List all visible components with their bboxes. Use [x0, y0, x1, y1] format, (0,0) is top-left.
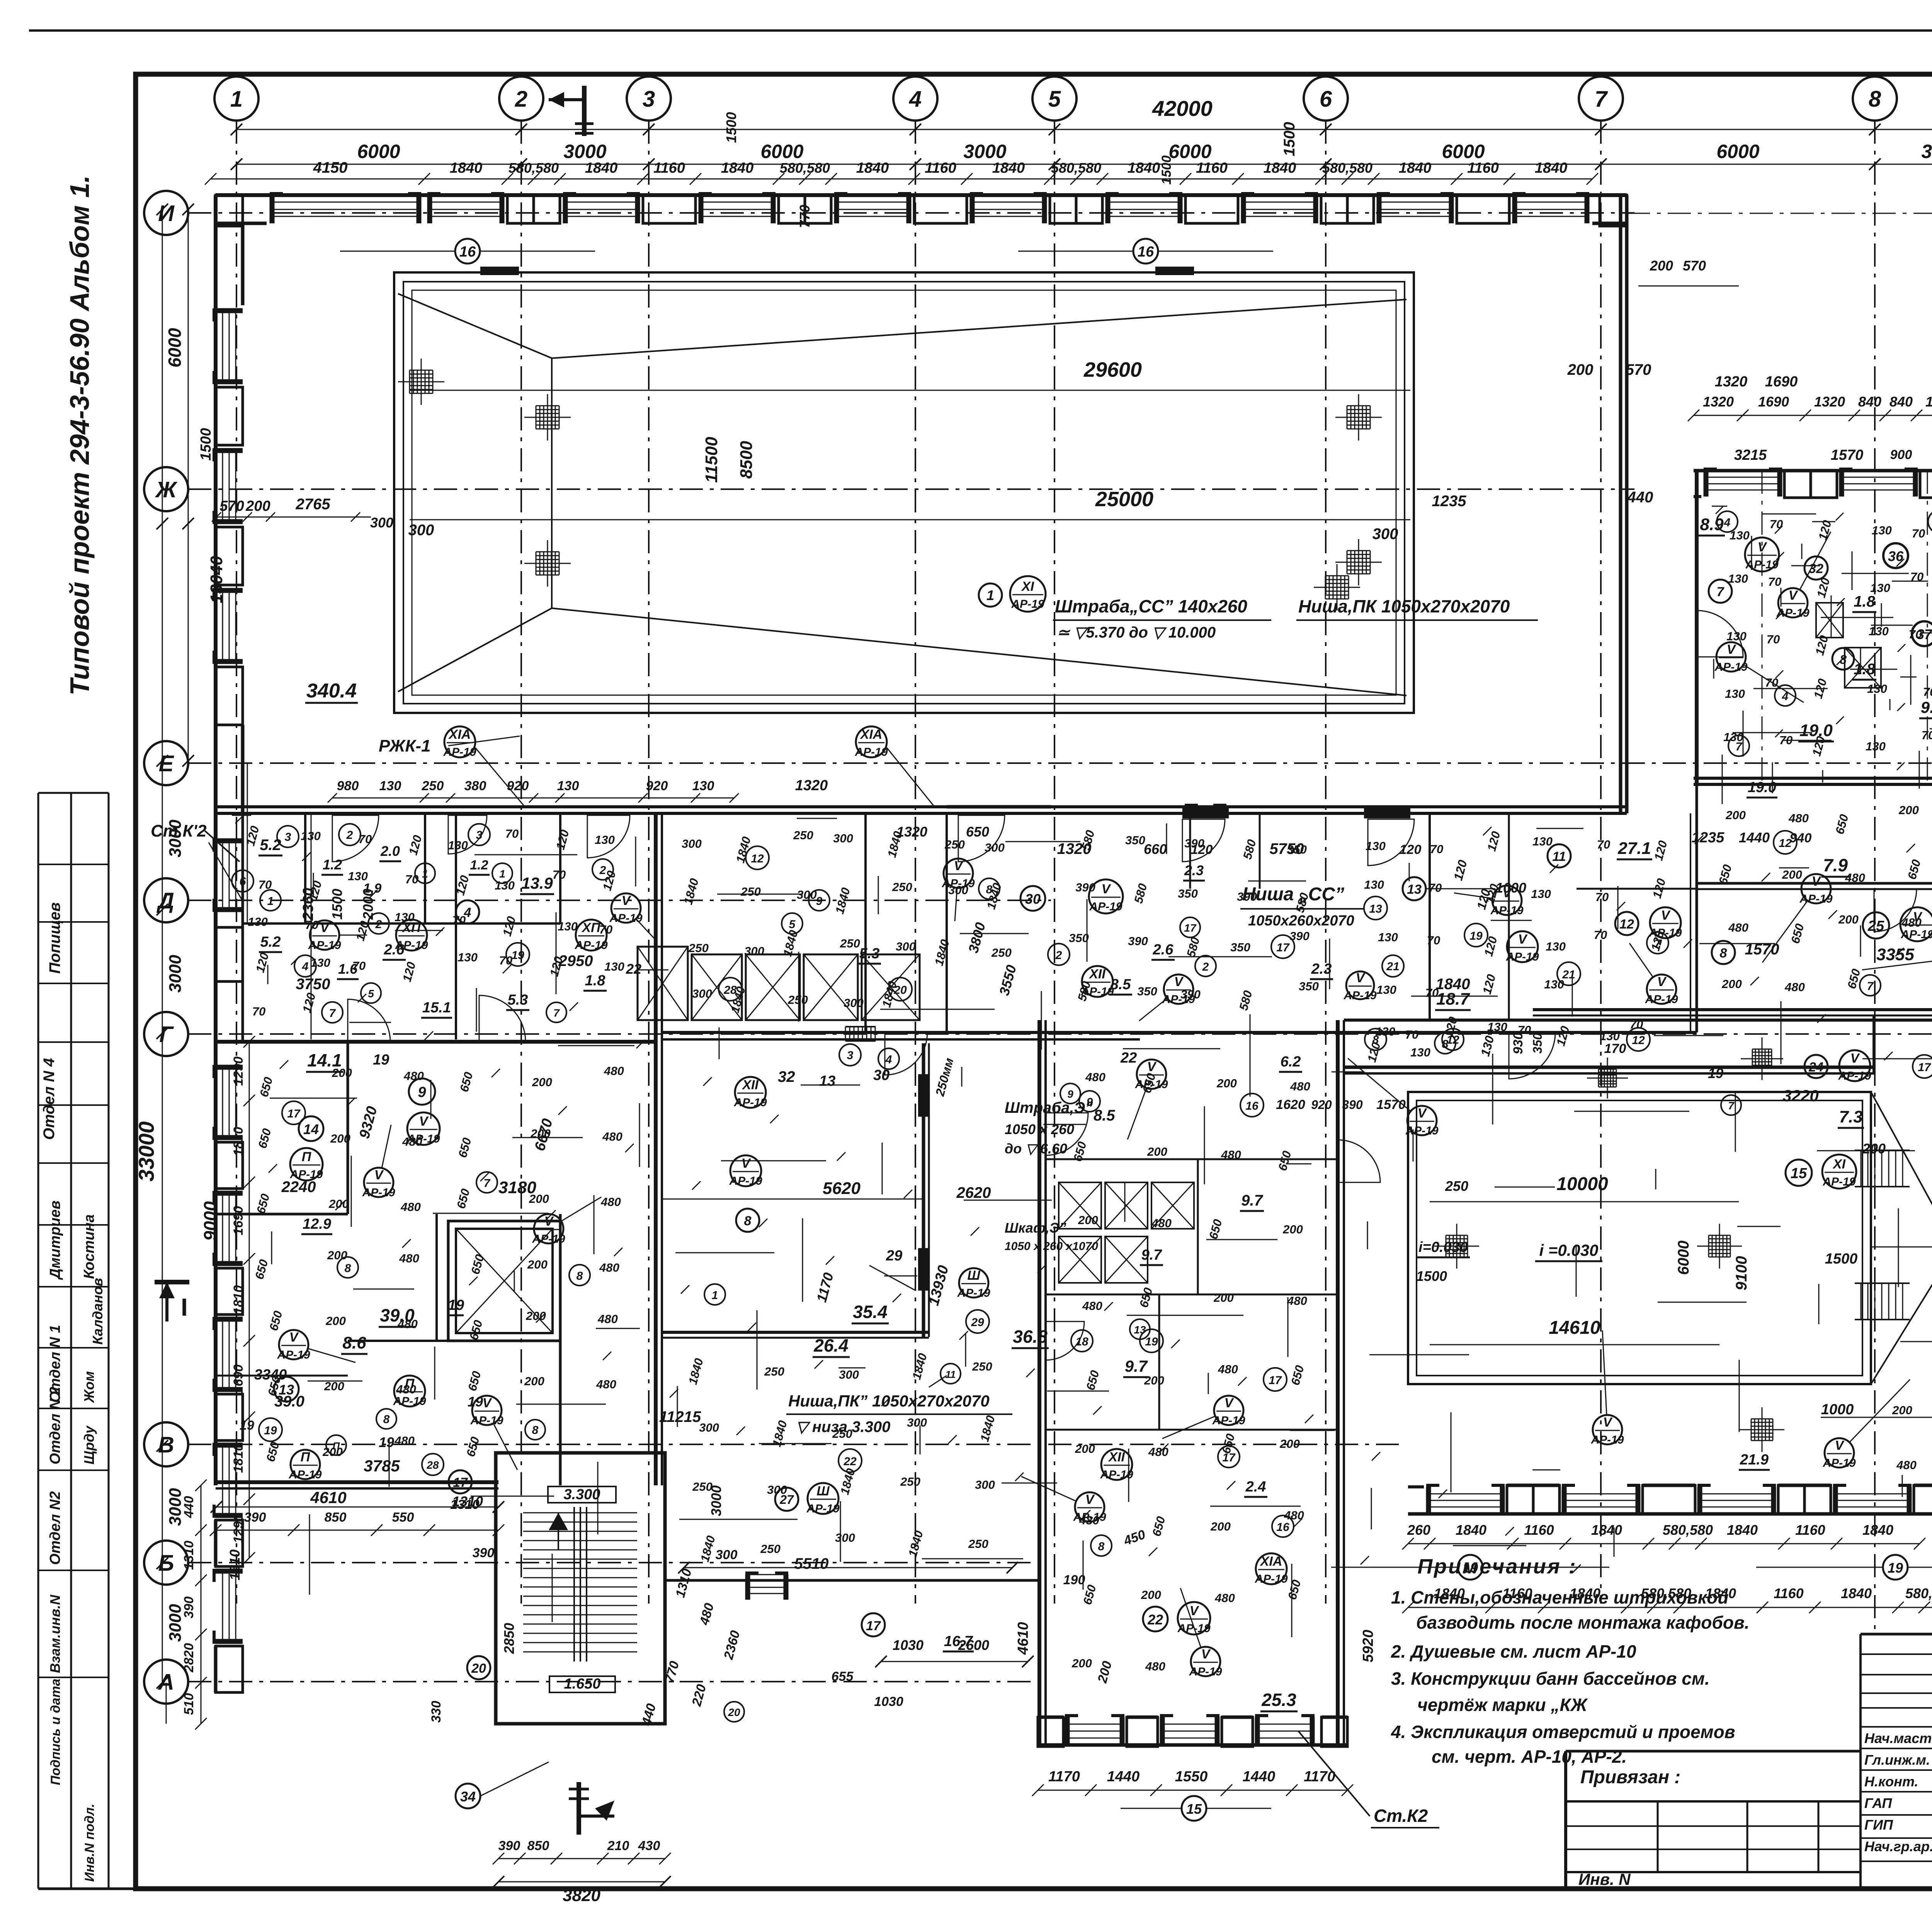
svg-text:920: 920 — [507, 779, 529, 793]
svg-text:250: 250 — [991, 946, 1012, 959]
svg-text:АР-19: АР-19 — [1089, 900, 1122, 913]
svg-text:200: 200 — [1078, 1213, 1098, 1227]
svg-text:XIА: XIА — [860, 727, 883, 742]
svg-text:70: 70 — [405, 872, 418, 886]
svg-text:16: 16 — [1138, 244, 1154, 260]
svg-text:12: 12 — [751, 852, 764, 865]
svg-text:12: 12 — [1779, 837, 1792, 850]
svg-text:70: 70 — [1768, 575, 1781, 588]
svg-text:4: 4 — [885, 1053, 892, 1066]
svg-text:3000: 3000 — [166, 955, 185, 993]
svg-text:1840: 1840 — [1535, 160, 1568, 176]
pool basin slope lines — [398, 294, 552, 358]
svg-text:5: 5 — [368, 988, 374, 1000]
svg-text:390: 390 — [1128, 934, 1148, 948]
svg-text:480: 480 — [394, 1434, 415, 1447]
svg-text:480: 480 — [1901, 916, 1922, 929]
svg-text:480: 480 — [604, 1064, 624, 1078]
svg-text:7: 7 — [1867, 980, 1874, 993]
svg-text:2620: 2620 — [956, 1184, 991, 1201]
svg-text:350: 350 — [1137, 985, 1157, 998]
svg-text:250: 250 — [840, 937, 860, 950]
svg-text:3000: 3000 — [563, 141, 606, 162]
section mark II bottom — [577, 1782, 581, 1835]
svg-text:3000: 3000 — [963, 141, 1006, 162]
bottom middle recessed wall — [665, 1579, 1039, 1582]
svg-text:200: 200 — [1282, 1223, 1303, 1236]
svg-text:27.1: 27.1 — [1617, 839, 1651, 858]
svg-text:200: 200 — [328, 1197, 349, 1211]
svg-text:390: 390 — [473, 1546, 495, 1560]
svg-text:16: 16 — [459, 244, 476, 260]
svg-text:250: 250 — [972, 1360, 992, 1373]
svg-text:580,580: 580,580 — [509, 160, 559, 176]
svg-text:12: 12 — [1632, 1034, 1645, 1047]
svg-text:5.3: 5.3 — [508, 992, 528, 1008]
svg-text:350: 350 — [1069, 931, 1089, 945]
svg-text:28: 28 — [723, 984, 737, 997]
svg-text:570: 570 — [219, 498, 244, 514]
svg-text:1690: 1690 — [231, 1206, 246, 1235]
svg-text:550: 550 — [392, 1510, 414, 1525]
svg-text:70: 70 — [1405, 1028, 1418, 1041]
svg-text:1050х260х2070: 1050х260х2070 — [1248, 913, 1354, 929]
svg-text:1500: 1500 — [1416, 1268, 1447, 1284]
svg-text:3820: 3820 — [563, 1886, 600, 1905]
svg-text:8: 8 — [345, 1262, 351, 1275]
svg-text:130: 130 — [1728, 572, 1748, 585]
svg-text:2.4: 2.4 — [1245, 1479, 1266, 1495]
svg-text:14: 14 — [303, 1121, 319, 1137]
left wing left wall windows — [222, 1065, 223, 1140]
svg-text:130: 130 — [348, 869, 368, 883]
svg-text:1840: 1840 — [1128, 160, 1160, 176]
central wing interior shafts — [1059, 1182, 1101, 1229]
svg-text:480: 480 — [1728, 921, 1748, 934]
svg-text:22: 22 — [1120, 1050, 1137, 1066]
svg-text:см. черт. АР-10, АР-2.: см. черт. АР-10, АР-2. — [1432, 1747, 1627, 1767]
svg-text:1030: 1030 — [893, 1637, 923, 1653]
svg-text:19: 19 — [373, 1052, 389, 1068]
svg-text:1.8: 1.8 — [1854, 593, 1875, 610]
right wing bottom dims — [1408, 1607, 1932, 1608]
svg-text:V: V — [1835, 1438, 1845, 1453]
svg-text:250: 250 — [944, 838, 965, 851]
svg-text:16: 16 — [1276, 1521, 1289, 1534]
grid span dimensions 6000/3000 — [236, 164, 1932, 165]
svg-text:1: 1 — [712, 1289, 718, 1302]
svg-text:1050 х 260 х1070: 1050 х 260 х1070 — [1005, 1240, 1098, 1253]
svg-text:2: 2 — [346, 829, 353, 842]
svg-text:22: 22 — [843, 1455, 857, 1468]
svg-text:2.6: 2.6 — [384, 942, 405, 958]
svg-text:6: 6 — [1320, 87, 1332, 112]
svg-text:390: 390 — [244, 1510, 266, 1525]
svg-text:Штраба„СС” 140х260: Штраба„СС” 140х260 — [1055, 596, 1247, 616]
svg-text:200: 200 — [529, 1192, 549, 1206]
svg-text:200: 200 — [327, 1248, 347, 1262]
hall wall above — [1344, 1019, 1932, 1022]
svg-text:ГАП: ГАП — [1864, 1795, 1892, 1811]
svg-text:200: 200 — [1782, 868, 1802, 881]
svg-text:70: 70 — [1429, 881, 1442, 895]
svg-text:380: 380 — [464, 779, 486, 793]
svg-text:1310: 1310 — [1925, 394, 1932, 410]
svg-text:1160: 1160 — [1467, 160, 1499, 176]
svg-text:9: 9 — [816, 895, 823, 908]
svg-text:8: 8 — [1442, 1038, 1449, 1051]
svg-text:7.9: 7.9 — [1823, 855, 1848, 875]
svg-text:190: 190 — [1063, 1573, 1085, 1587]
svg-text:350: 350 — [1178, 887, 1198, 900]
svg-text:1500: 1500 — [1159, 155, 1174, 185]
svg-text:70: 70 — [1427, 934, 1440, 947]
svg-text:130: 130 — [457, 951, 478, 964]
svg-text:8.9: 8.9 — [1700, 515, 1724, 534]
svg-text:Отдел N2: Отдел N2 — [47, 1491, 63, 1565]
svg-text:130: 130 — [557, 779, 579, 793]
svg-text:V: V — [954, 859, 964, 873]
svg-text:Привязан :: Привязан : — [1580, 1767, 1680, 1787]
left wing outline — [216, 1040, 656, 1044]
svg-text:350: 350 — [1230, 940, 1250, 954]
svg-text:42000: 42000 — [1152, 96, 1213, 121]
svg-text:480: 480 — [596, 1378, 616, 1391]
shaft boxes row — [692, 954, 742, 1020]
svg-text:200: 200 — [1650, 258, 1673, 274]
svg-text:Подпись и дата: Подпись и дата — [48, 1679, 63, 1785]
svg-text:8: 8 — [383, 1413, 390, 1426]
svg-text:200: 200 — [1279, 1437, 1300, 1451]
svg-text:12.9: 12.9 — [303, 1216, 331, 1232]
svg-text:17: 17 — [1276, 941, 1290, 954]
svg-text:300: 300 — [896, 940, 916, 953]
svg-text:11215: 11215 — [659, 1408, 701, 1425]
svg-text:200: 200 — [1075, 1442, 1095, 1456]
svg-text:250: 250 — [740, 885, 761, 898]
svg-text:АР-19: АР-19 — [470, 1414, 503, 1427]
svg-text:300: 300 — [835, 1531, 855, 1544]
central wing right wall — [1336, 1020, 1340, 1747]
svg-text:Ш: Ш — [816, 1484, 830, 1498]
svg-text:V: V — [1418, 1106, 1428, 1121]
svg-text:130: 130 — [1546, 940, 1566, 953]
svg-text:1840: 1840 — [1705, 1585, 1736, 1601]
pool hall left wall — [214, 195, 218, 813]
svg-text:250: 250 — [787, 993, 808, 1007]
svg-text:480: 480 — [400, 1200, 421, 1214]
svg-text:XI: XI — [1021, 579, 1035, 594]
svg-text:200: 200 — [1838, 913, 1859, 926]
svg-text:9.7: 9.7 — [1125, 1357, 1148, 1375]
central wing bottom window wall — [1038, 1743, 1347, 1747]
svg-text:19: 19 — [264, 1424, 277, 1437]
horizontal grid lines — [188, 212, 1634, 214]
svg-text:6000: 6000 — [165, 328, 185, 367]
right wing bottom window wall — [1408, 1512, 1932, 1516]
svg-text:АР-19: АР-19 — [532, 1233, 565, 1245]
svg-text:250: 250 — [764, 1365, 784, 1378]
pool hall right wall — [1619, 195, 1622, 813]
svg-text:130: 130 — [379, 779, 401, 793]
svg-text:390: 390 — [1075, 881, 1095, 894]
small pool columns — [1446, 1235, 1447, 1257]
svg-text:Ниша,ПК” 1050х270х2070: Ниша,ПК” 1050х270х2070 — [788, 1392, 990, 1410]
svg-text:V: V — [1661, 908, 1671, 923]
svg-text:19: 19 — [1888, 1560, 1903, 1576]
svg-text:650: 650 — [966, 824, 989, 840]
svg-text:2.3: 2.3 — [1184, 862, 1204, 878]
svg-text:2. Душевые см. лист АР-10: 2. Душевые см. лист АР-10 — [1391, 1641, 1636, 1662]
svg-text:200: 200 — [332, 1066, 352, 1080]
svg-text:3215: 3215 — [1734, 447, 1767, 463]
svg-text:250: 250 — [900, 1475, 920, 1488]
svg-text:Типовой проект 294-3-56.90: Типовой проект 294-3-56.90 Альбом 1. — [65, 175, 95, 696]
svg-text:480: 480 — [1218, 1362, 1238, 1376]
svg-text:Инв.N подл.: Инв.N подл. — [82, 1804, 97, 1882]
svg-text:1840: 1840 — [1436, 976, 1470, 993]
svg-text:9: 9 — [1067, 1088, 1073, 1100]
svg-text:130: 130 — [1544, 978, 1564, 991]
svg-text:РЖК-1: РЖК-1 — [379, 736, 431, 755]
svg-text:3750: 3750 — [296, 976, 330, 993]
svg-text:АР-19: АР-19 — [1162, 993, 1195, 1006]
svg-text:15: 15 — [1186, 1801, 1202, 1817]
svg-text:28: 28 — [426, 1459, 439, 1471]
niche marks top wall — [480, 267, 519, 275]
svg-text:390: 390 — [1237, 890, 1257, 903]
svg-text:1440: 1440 — [1243, 1769, 1276, 1785]
svg-text:200: 200 — [1210, 1520, 1231, 1533]
svg-text:250: 250 — [832, 1427, 852, 1440]
top-right wing left wall — [1695, 471, 1699, 784]
svg-text:8: 8 — [1869, 87, 1881, 112]
svg-text:8: 8 — [1098, 1540, 1105, 1553]
signature table — [1859, 1634, 1862, 1889]
svg-text:13: 13 — [1369, 903, 1382, 915]
svg-text:АР-19: АР-19 — [941, 877, 975, 890]
staircase 1 box — [496, 1453, 665, 1724]
svg-text:V: V — [419, 1114, 429, 1129]
svg-text:480: 480 — [396, 1383, 416, 1396]
svg-text:980: 980 — [337, 779, 359, 793]
svg-text:1840: 1840 — [585, 160, 618, 176]
svg-text:Взам.инв.N: Взам.инв.N — [47, 1594, 63, 1673]
svg-text:1840: 1840 — [1434, 1585, 1465, 1601]
svg-text:3355: 3355 — [1876, 945, 1914, 964]
svg-text:580,580: 580,580 — [1641, 1585, 1691, 1601]
svg-text:21: 21 — [1386, 960, 1399, 973]
svg-text:300: 300 — [408, 522, 434, 539]
svg-text:580,580: 580,580 — [780, 160, 830, 176]
svg-text:480: 480 — [1085, 1070, 1105, 1084]
svg-text:130: 130 — [595, 833, 615, 847]
svg-text:Ниша „СС”: Ниша „СС” — [1242, 884, 1344, 905]
svg-text:I: I — [181, 1293, 188, 1321]
svg-text:130: 130 — [1869, 624, 1889, 638]
svg-text:АР-19: АР-19 — [1900, 928, 1932, 941]
svg-text:33000: 33000 — [134, 1121, 158, 1182]
svg-text:Дмитриев: Дмитриев — [47, 1201, 63, 1280]
svg-text:АР-19: АР-19 — [1505, 951, 1539, 963]
svg-text:8: 8 — [577, 1270, 583, 1282]
svg-text:920: 920 — [1311, 1098, 1332, 1112]
svg-text:1235: 1235 — [1692, 830, 1725, 846]
svg-text:6000: 6000 — [1168, 141, 1211, 162]
bottom left wing chain — [216, 1530, 498, 1531]
svg-text:V: V — [483, 1396, 493, 1410]
pool hall top wall outer — [216, 193, 1627, 197]
svg-text:V: V — [289, 1330, 299, 1345]
svg-text:200: 200 — [524, 1374, 544, 1388]
svg-text:5: 5 — [1048, 87, 1061, 112]
svg-text:V: V — [1850, 1051, 1861, 1066]
svg-text:7: 7 — [1595, 87, 1608, 112]
svg-text:4610: 4610 — [1015, 1622, 1031, 1655]
svg-text:300: 300 — [839, 1368, 859, 1381]
svg-text:1440: 1440 — [1739, 830, 1770, 845]
middle band partitions — [304, 813, 306, 923]
svg-text:АР-19: АР-19 — [1799, 893, 1832, 905]
svg-text:130: 130 — [1487, 1020, 1507, 1034]
svg-text:В: В — [158, 1432, 174, 1458]
svg-text:200: 200 — [1144, 1374, 1164, 1387]
svg-text:200: 200 — [1213, 1291, 1234, 1304]
svg-text:АР-19: АР-19 — [1073, 1511, 1106, 1524]
svg-text:300: 300 — [985, 841, 1005, 854]
svg-text:6000: 6000 — [1675, 1241, 1692, 1275]
svg-text:70: 70 — [359, 832, 372, 846]
svg-text:6: 6 — [240, 875, 246, 888]
svg-text:2850: 2850 — [501, 1623, 517, 1654]
archive number — [38, 1888, 136, 1890]
svg-text:П: П — [301, 1450, 311, 1464]
svg-text:1570: 1570 — [1831, 447, 1864, 463]
svg-text:300: 300 — [844, 996, 864, 1010]
svg-text:1320: 1320 — [1715, 374, 1748, 390]
svg-text:200: 200 — [1147, 1145, 1167, 1158]
svg-text:Отдел N 4: Отдел N 4 — [41, 1058, 58, 1140]
svg-text:АР-19: АР-19 — [1838, 1070, 1871, 1082]
svg-text:430: 430 — [638, 1838, 660, 1853]
svg-text:250: 250 — [968, 1537, 988, 1551]
svg-text:2: 2 — [1202, 961, 1209, 973]
svg-text:Калданов: Калданов — [90, 1278, 105, 1345]
svg-text:1840: 1840 — [1591, 1522, 1622, 1538]
svg-text:V: V — [1201, 1647, 1211, 1662]
svg-text:200: 200 — [532, 1075, 552, 1089]
staircase 1 treads — [523, 1512, 637, 1514]
svg-text:V: V — [320, 920, 330, 935]
small pool basin — [1408, 1092, 1871, 1384]
svg-text:1: 1 — [986, 587, 994, 603]
svg-text:14610: 14610 — [1549, 1318, 1600, 1338]
svg-text:250: 250 — [760, 1542, 781, 1556]
svg-text:4. Экспликация отверстий и про: 4. Экспликация отверстий и проемов — [1391, 1722, 1735, 1742]
svg-text:350: 350 — [1125, 833, 1145, 847]
svg-text:300: 300 — [1372, 526, 1398, 543]
scatter bubbles — [260, 890, 281, 911]
svg-text:130: 130 — [495, 879, 515, 892]
svg-text:34: 34 — [460, 1789, 476, 1804]
svg-text:1: 1 — [267, 895, 274, 908]
svg-text:30: 30 — [1025, 891, 1041, 907]
section mark I top — [582, 86, 587, 136]
svg-text:4: 4 — [909, 87, 922, 112]
svg-text:2240: 2240 — [281, 1179, 316, 1196]
left stamp table — [37, 793, 39, 1889]
svg-text:АР-19: АР-19 — [806, 1502, 839, 1515]
svg-text:ГИП: ГИП — [1864, 1817, 1893, 1833]
svg-text:210: 210 — [607, 1838, 629, 1853]
svg-text:22: 22 — [1147, 1612, 1163, 1628]
kuluar 26.4 walls — [922, 1043, 925, 1337]
top-right wing top wall — [1694, 469, 1932, 473]
svg-text:15: 15 — [1791, 1165, 1807, 1182]
svg-text:V: V — [544, 1214, 554, 1229]
svg-text:i =0.030: i =0.030 — [1539, 1241, 1599, 1259]
bubbles 16 on top wall — [455, 239, 480, 264]
svg-text:480: 480 — [599, 1261, 619, 1274]
svg-text:840: 840 — [1858, 394, 1881, 410]
svg-text:200: 200 — [1071, 1656, 1092, 1670]
svg-text:26.4: 26.4 — [813, 1335, 849, 1355]
bubbles 19 bottom — [1458, 1555, 1483, 1580]
svg-text:70: 70 — [1518, 1023, 1531, 1037]
svg-text:1030: 1030 — [874, 1694, 903, 1709]
svg-text:16: 16 — [1245, 1100, 1259, 1112]
svg-text:200: 200 — [322, 1445, 343, 1459]
svg-text:1690: 1690 — [1758, 394, 1789, 410]
svg-text:70: 70 — [1595, 890, 1609, 904]
svg-text:4610: 4610 — [310, 1488, 346, 1507]
svg-text:V: V — [1356, 971, 1366, 985]
svg-text:АР-19: АР-19 — [308, 939, 341, 952]
svg-text:V: V — [1190, 1604, 1200, 1618]
svg-text:1840: 1840 — [1399, 160, 1432, 176]
svg-text:200: 200 — [1892, 1403, 1912, 1417]
svg-text:130: 130 — [1870, 581, 1890, 595]
svg-text:6000: 6000 — [357, 141, 400, 162]
svg-text:Щрду: Щрду — [81, 1425, 97, 1464]
svg-text:20: 20 — [728, 1706, 740, 1718]
svg-text:базводить после монтажа кафобо: базводить после монтажа кафобов. — [1416, 1612, 1750, 1633]
svg-text:21.9: 21.9 — [1740, 1452, 1769, 1468]
svg-text:V: V — [1758, 540, 1768, 554]
svg-text:480: 480 — [1287, 1294, 1307, 1308]
svg-text:1290: 1290 — [231, 1056, 246, 1086]
svg-text:17: 17 — [866, 1619, 881, 1633]
svg-text:440: 440 — [1627, 489, 1653, 506]
svg-text:АР-19: АР-19 — [1134, 1078, 1168, 1091]
svg-text:2: 2 — [375, 918, 382, 931]
svg-text:300: 300 — [744, 944, 764, 958]
svg-text:Ст.К'2: Ст.К'2 — [151, 821, 207, 840]
svg-text:580,580: 580,580 — [1905, 1585, 1932, 1601]
svg-text:11: 11 — [946, 1369, 956, 1380]
pool hall top wall window band — [216, 222, 267, 225]
svg-text:1840: 1840 — [1456, 1522, 1486, 1538]
svg-text:20: 20 — [471, 1661, 486, 1676]
svg-text:АР-19: АР-19 — [1822, 1175, 1855, 1188]
svg-text:19: 19 — [1145, 1335, 1158, 1348]
svg-text:25.3: 25.3 — [1261, 1690, 1296, 1710]
svg-text:8.6: 8.6 — [342, 1333, 366, 1352]
window dimension chain top — [211, 179, 1592, 180]
XIA bubbles near top walls — [444, 726, 475, 757]
svg-text:22: 22 — [626, 961, 641, 977]
svg-text:480: 480 — [1214, 1591, 1235, 1605]
